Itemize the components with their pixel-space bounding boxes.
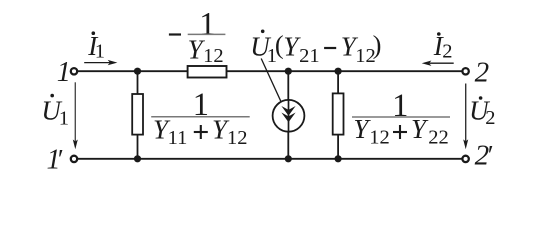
svg-text:11: 11 [168, 127, 188, 149]
voltage U1 arrow [73, 82, 78, 149]
svg-text:′: ′ [58, 144, 64, 174]
terminal 1' [71, 156, 77, 162]
terminal 1 [71, 68, 77, 74]
node 2' [475, 140, 494, 172]
svg-text:1: 1 [392, 88, 408, 124]
svg-text:2: 2 [442, 40, 452, 62]
voltage U2 arrow [463, 84, 468, 150]
current I2 arrow [422, 61, 454, 66]
svg-text:′: ′ [488, 140, 494, 170]
label I1 [87, 31, 105, 62]
label U2 [469, 96, 495, 130]
svg-text:1: 1 [95, 40, 105, 62]
resistor R2 shunt 1/(Y12+Y22) [333, 93, 344, 134]
terminal 2' [462, 156, 468, 162]
wire left shunt branch [137, 71, 139, 159]
svg-text:1: 1 [193, 87, 209, 123]
label I2 [433, 31, 453, 62]
value label 1/(Y11+Y12) [151, 87, 250, 149]
svg-text:2: 2 [485, 107, 495, 129]
resistor R1 shunt 1/(Y11+Y12) [132, 94, 143, 135]
value label 1/(Y12+Y22) [352, 88, 450, 148]
junction top-middle [285, 68, 292, 75]
junction bottom-left [134, 155, 141, 162]
leader line from source label [261, 59, 281, 103]
svg-text:12: 12 [369, 126, 390, 148]
svg-text:2: 2 [475, 57, 490, 89]
svg-text:1: 1 [59, 108, 69, 130]
junction bottom-right [335, 155, 342, 162]
junction top-right [335, 68, 342, 75]
wire right shunt branch [337, 71, 339, 159]
terminal 2 [462, 68, 468, 74]
current I1 arrow [84, 60, 117, 65]
wire top rail [78, 70, 462, 72]
junction top-left [134, 68, 141, 75]
wire source branch [287, 71, 289, 159]
svg-text:12: 12 [203, 45, 224, 67]
label U1 [41, 94, 69, 130]
svg-text:): ) [373, 30, 382, 60]
node 1' [47, 144, 64, 176]
svg-text:(: ( [275, 30, 284, 60]
resistor R3 series -1/Y12 [188, 66, 227, 78]
svg-text:1: 1 [57, 57, 71, 88]
svg-text:21: 21 [299, 45, 320, 67]
current source U1(Y21-Y12) [273, 100, 305, 132]
svg-text:22: 22 [428, 126, 449, 148]
svg-text:12: 12 [227, 127, 248, 149]
wire bottom rail [78, 158, 462, 160]
junction bottom-middle [285, 155, 292, 162]
value label U1(Y21-Y12) for source [250, 30, 381, 68]
value label -1/Y12 [169, 7, 226, 68]
